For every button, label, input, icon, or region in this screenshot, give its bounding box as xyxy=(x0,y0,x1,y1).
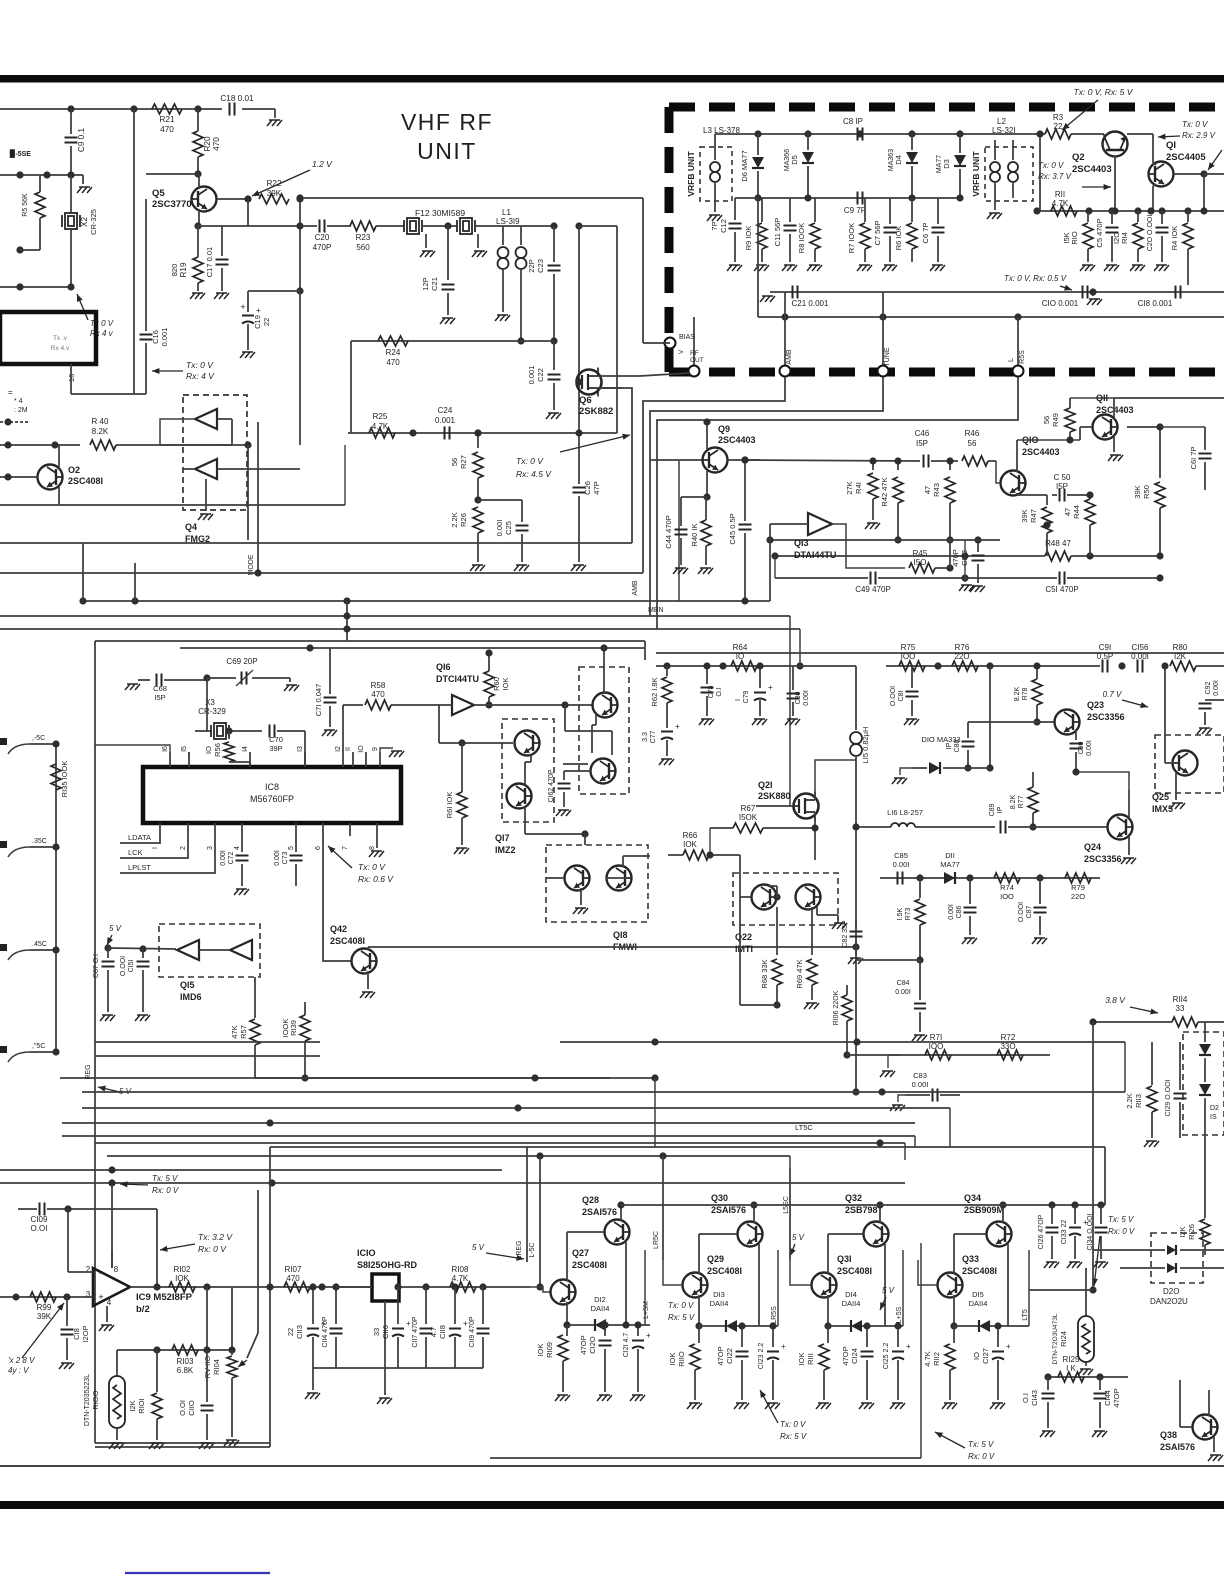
resistor R22 xyxy=(259,194,289,204)
svg-text:2SC408I: 2SC408I xyxy=(707,1266,742,1276)
capacitor C72 0.001 xyxy=(241,836,243,852)
diode Dxa xyxy=(1204,1022,1206,1042)
capacitor C117 470P xyxy=(425,1287,427,1324)
svg-text:Q24: Q24 xyxy=(1084,842,1101,852)
svg-text:C44 470P: C44 470P xyxy=(664,515,673,548)
svg-text:DAII4: DAII4 xyxy=(591,1304,610,1313)
vertical x248 mid xyxy=(247,445,249,540)
svg-text:C67 O.I: C67 O.I xyxy=(93,954,100,978)
svg-text:RI25: RI25 xyxy=(1063,1355,1080,1364)
vertical x56 left rail xyxy=(55,744,57,1052)
capacitor C21 xyxy=(447,226,449,280)
vertical x351 xyxy=(350,341,352,433)
R64 row wire y666 xyxy=(656,665,845,667)
ground C113 left xyxy=(312,1368,314,1390)
wire y317 row xyxy=(758,316,1224,318)
vertical x1093 upper xyxy=(1092,1022,1094,1092)
dashed box Q22 1MT1 xyxy=(733,873,838,925)
ground R41 xyxy=(867,522,878,524)
wire y211 row right xyxy=(1037,210,1224,212)
diode D4 MA363 xyxy=(911,134,913,150)
transistor Q18b xyxy=(607,866,632,891)
svg-text:CI44: CI44 xyxy=(1103,1390,1112,1406)
ground C6 xyxy=(932,264,943,266)
svg-text:C79: C79 xyxy=(743,690,750,703)
svg-text:C22: C22 xyxy=(536,368,545,382)
svg-text:R99: R99 xyxy=(37,1303,52,1312)
capacitor C11 56P xyxy=(789,198,791,222)
ground L3 xyxy=(709,214,720,216)
ground C25 xyxy=(516,564,527,566)
Q29 base wire xyxy=(663,1260,682,1285)
capacitor C121 4.7 xyxy=(637,1325,639,1336)
svg-text:DTAI44TU: DTAI44TU xyxy=(794,550,836,560)
svg-text:C68: C68 xyxy=(153,684,167,693)
resistor R113 2.2K xyxy=(1151,1078,1153,1085)
resistor R27 56 xyxy=(477,433,479,448)
svg-text:2SB909M: 2SB909M xyxy=(964,1205,1004,1215)
IC8 bottom pin stubs xyxy=(159,823,161,836)
svg-text:D2O: D2O xyxy=(1163,1287,1179,1296)
blue underline mark xyxy=(125,1572,270,1574)
svg-text:C8 IP: C8 IP xyxy=(843,117,863,126)
top border bar xyxy=(0,75,1224,83)
svg-text:39K: 39K xyxy=(267,189,282,198)
wire y960 stub xyxy=(856,959,920,961)
cap ground rail xyxy=(313,1367,483,1369)
ground R14 xyxy=(1132,264,1143,266)
svg-text:Q5: Q5 xyxy=(152,188,165,199)
svg-text:C19: C19 xyxy=(253,315,262,329)
vertical x135 xyxy=(134,563,136,601)
svg-text:5 V: 5 V xyxy=(109,924,122,933)
svg-text:Rx 4.v: Rx 4.v xyxy=(51,345,70,352)
svg-text:C11 56P: C11 56P xyxy=(773,218,782,247)
dashed box Q15 IMD6 xyxy=(159,924,260,977)
svg-text:C69 20P: C69 20P xyxy=(226,657,257,666)
svg-text:R40 IK: R40 IK xyxy=(690,524,699,547)
capacitor C81 0.001 xyxy=(911,666,913,688)
svg-text:2SB798: 2SB798 xyxy=(845,1205,878,1215)
svg-text:R6 IOK: R6 IOK xyxy=(894,226,903,251)
transistor Q24 2SC3356 xyxy=(1108,815,1133,840)
svg-text:TUNE: TUNE xyxy=(884,347,891,366)
section enclosure top edge xyxy=(95,640,645,642)
svg-text:0.00I: 0.00I xyxy=(1131,652,1149,661)
wire y422 left stub xyxy=(0,421,30,423)
svg-text:+: + xyxy=(781,1342,786,1351)
svg-text:RIII: RIII xyxy=(806,1353,815,1365)
capacitor C67 0.1 xyxy=(107,948,109,958)
transistor Q11 xyxy=(1093,415,1118,440)
svg-text:+: + xyxy=(906,1342,911,1351)
svg-text:IOO: IOO xyxy=(1000,892,1014,901)
svg-text:C 50: C 50 xyxy=(1054,473,1071,482)
ground C17 xyxy=(216,292,227,294)
AMB label wire right xyxy=(0,504,59,506)
svg-text:F12 30MI589: F12 30MI589 xyxy=(415,208,465,218)
svg-text:33O: 33O xyxy=(1000,1042,1015,1051)
vertical LREG xyxy=(526,1147,528,1262)
svg-text:'x 2 8 V: 'x 2 8 V xyxy=(8,1356,35,1365)
svg-text:3.3: 3.3 xyxy=(642,732,649,742)
svg-text:Q2I: Q2I xyxy=(758,780,773,790)
svg-text:Rx: 5 V: Rx: 5 V xyxy=(780,1432,807,1441)
svg-text:VHF RF: VHF RF xyxy=(401,109,493,135)
svg-text:2: 2 xyxy=(180,846,187,850)
svg-text:470: 470 xyxy=(371,690,385,699)
svg-text:R21: R21 xyxy=(159,115,174,124)
svg-text:.35C: .35C xyxy=(32,838,47,845)
svg-text:MA77: MA77 xyxy=(936,155,943,173)
svg-text:12P: 12P xyxy=(421,277,430,290)
capacitor C50 15P xyxy=(1059,489,1061,502)
ground C44 xyxy=(675,567,686,569)
Q29-Q30 wiring xyxy=(698,1234,700,1274)
bus y1092 xyxy=(82,1091,1125,1093)
ground R7 xyxy=(859,264,870,266)
svg-text:RF: RF xyxy=(690,350,699,357)
svg-text:MA77: MA77 xyxy=(940,860,960,869)
svg-text:R49: R49 xyxy=(1051,413,1060,427)
svg-text:56: 56 xyxy=(450,458,459,466)
svg-text:MA363: MA363 xyxy=(888,149,895,171)
svg-text:IOK: IOK xyxy=(668,1353,677,1366)
svg-text:R64: R64 xyxy=(733,643,748,652)
vertical x1040 xyxy=(1039,134,1041,211)
svg-text:R68 33K: R68 33K xyxy=(760,959,769,988)
wire RF OUT to Q6 drain xyxy=(640,373,689,376)
svg-text:C6 7P: C6 7P xyxy=(921,223,930,244)
svg-text:0.00I: 0.00I xyxy=(495,520,504,537)
bus y1078 xyxy=(60,1077,655,1079)
Q16 input wire xyxy=(430,704,452,706)
resistor R108 4.7K xyxy=(450,1282,476,1292)
svg-text:C26: C26 xyxy=(583,481,592,495)
resistor R78 8.2K xyxy=(1032,679,1042,705)
svg-text:RI4: RI4 xyxy=(1120,232,1129,244)
net LDATA xyxy=(120,836,160,843)
terminal TUNE xyxy=(878,366,889,377)
svg-text:IOOK: IOOK xyxy=(281,1019,290,1038)
capacitor C9 7P xyxy=(857,192,859,205)
svg-text:0.001: 0.001 xyxy=(160,328,169,347)
wire Q2 to Q1 corner xyxy=(1127,133,1153,135)
transistor Q33 xyxy=(938,1273,963,1298)
transistor Q38 xyxy=(1193,1415,1218,1440)
svg-text:I6: I6 xyxy=(162,746,169,752)
svg-text:R47: R47 xyxy=(1029,509,1038,523)
svg-text:O.OOI: O.OOI xyxy=(120,956,127,976)
svg-text:RIOI: RIOI xyxy=(137,1398,146,1413)
svg-text:X2: X2 xyxy=(80,217,89,227)
wire pin13 to crystal row xyxy=(304,731,306,767)
svg-text:39P: 39P xyxy=(269,744,282,753)
svg-text:Tx: 0 V, Rx: 0.5 V: Tx: 0 V, Rx: 0.5 V xyxy=(1004,274,1067,283)
svg-text:C45 0.5P: C45 0.5P xyxy=(728,513,737,544)
svg-text:C83: C83 xyxy=(913,1071,927,1080)
svg-text:2SAI576: 2SAI576 xyxy=(711,1205,746,1215)
svg-text:IMZ2: IMZ2 xyxy=(495,845,516,855)
svg-text:I5: I5 xyxy=(181,746,188,752)
svg-text:47OP: 47OP xyxy=(579,1335,588,1354)
resistor R126 12K xyxy=(1204,1210,1206,1218)
svg-text:I K: I K xyxy=(1066,1364,1076,1373)
wire L2 to R3 xyxy=(995,133,1045,135)
capacitor C118 4.7 xyxy=(454,1287,456,1324)
svg-text:Tx: 0 V: Tx: 0 V xyxy=(186,360,214,370)
svg-text:0.001: 0.001 xyxy=(435,416,456,425)
transistor Q19b xyxy=(591,759,616,784)
capacitor C18 0.001 vco xyxy=(1175,286,1177,299)
ground C20b xyxy=(1156,264,1167,266)
ground Q22b xyxy=(816,907,818,915)
svg-text:Rx: 4 V: Rx: 4 V xyxy=(186,371,215,381)
terminal RF OUT xyxy=(689,366,700,377)
resistor R4 10K xyxy=(1187,211,1189,222)
wire y878 row xyxy=(880,877,1100,879)
resistor R72 330 xyxy=(997,1050,1023,1060)
svg-text:470: 470 xyxy=(160,125,174,134)
svg-text:QI7: QI7 xyxy=(495,833,510,843)
wire from y226 corner to BIAS xyxy=(579,225,617,227)
vertical from C21 row xyxy=(784,292,786,317)
svg-text:Q3I: Q3I xyxy=(837,1254,852,1264)
svg-text:RI39: RI39 xyxy=(289,1020,298,1036)
svg-text:RII: RII xyxy=(1055,190,1065,199)
svg-text:Tx: 3.2 V: Tx: 3.2 V xyxy=(198,1232,233,1242)
resistor R110 10K xyxy=(698,1326,700,1343)
capacitor C109 0.01 xyxy=(18,1208,37,1210)
svg-text:0.00I: 0.00I xyxy=(893,860,910,869)
svg-text:DTCI44TU: DTCI44TU xyxy=(436,674,479,684)
svg-text:IOK: IOK xyxy=(501,678,510,691)
svg-text:CI33 22: CI33 22 xyxy=(1061,1220,1068,1245)
svg-text:Rx 4 v: Rx 4 v xyxy=(90,329,114,338)
capacitor C88 1P xyxy=(967,722,969,738)
svg-text:4.7K: 4.7K xyxy=(452,1274,469,1283)
svg-text:Q30: Q30 xyxy=(711,1193,728,1203)
svg-text:R46: R46 xyxy=(965,429,980,438)
svg-text:* 4: * 4 xyxy=(14,398,23,405)
svg-text:QII: QII xyxy=(1096,393,1108,403)
resistor R125 1K xyxy=(1058,1372,1084,1382)
ground C49C51 xyxy=(964,578,966,582)
capacitor C89 1P xyxy=(1000,821,1002,834)
svg-text:O.I: O.I xyxy=(1021,1393,1030,1403)
pin8 wire xyxy=(111,1250,113,1268)
svg-text:C77: C77 xyxy=(650,730,657,743)
svg-text:b/2: b/2 xyxy=(136,1304,150,1315)
capacitor C82 33P xyxy=(855,920,857,928)
dashed box Q17 xyxy=(502,719,554,822)
svg-text:22: 22 xyxy=(1054,122,1063,131)
svg-text:CI23 2.2: CI23 2.2 xyxy=(758,1343,765,1370)
svg-text:C89: C89 xyxy=(989,803,996,816)
transistor Q25 xyxy=(1173,751,1198,776)
vertical x645 section right xyxy=(644,641,646,660)
svg-text:+: + xyxy=(406,1319,411,1328)
svg-text:47P: 47P xyxy=(592,481,601,494)
svg-text:R7 IOOK: R7 IOOK xyxy=(847,223,856,253)
diode D20a xyxy=(1167,1245,1176,1255)
pin8 ground xyxy=(376,836,378,848)
svg-text:C6I 7P: C6I 7P xyxy=(1189,447,1198,470)
svg-text:33: 33 xyxy=(1176,1004,1185,1013)
svg-text:IP: IP xyxy=(997,806,1004,813)
svg-text:7: 7 xyxy=(342,846,349,850)
ground L1a xyxy=(497,314,508,316)
wire L R5S net xyxy=(657,377,1018,629)
svg-text:DAN2O2U: DAN2O2U xyxy=(1150,1297,1188,1306)
capacitor C134 0.001 xyxy=(1100,1205,1102,1224)
svg-text:DII: DII xyxy=(945,851,955,860)
svg-text:C9 7P: C9 7P xyxy=(844,206,866,215)
svg-text:I2K: I2K xyxy=(1174,652,1187,661)
svg-text:Q2: Q2 xyxy=(1072,152,1085,163)
capacitor C9 xyxy=(70,109,72,134)
svg-text:2SC3770: 2SC3770 xyxy=(152,199,192,210)
svg-text:Q28: Q28 xyxy=(582,1195,599,1205)
svg-text:Tx: 0 V, Rx: 5 V: Tx: 0 V, Rx: 5 V xyxy=(1074,87,1134,97)
svg-text:4: 4 xyxy=(234,846,241,850)
wire right bus y653 xyxy=(656,652,1224,654)
svg-text:RI06 22OK: RI06 22OK xyxy=(833,990,840,1025)
svg-text:R72: R72 xyxy=(1001,1033,1016,1042)
svg-text:Q4: Q4 xyxy=(185,522,197,532)
svg-text:Tx: 0 V: Tx: 0 V xyxy=(1038,161,1064,170)
svg-text:I2K: I2K xyxy=(128,1400,137,1411)
note arrow right edge xyxy=(1208,150,1222,170)
row y1205 rail xyxy=(621,1204,1105,1206)
svg-text:CR-329: CR-329 xyxy=(198,707,226,716)
capacitor C110 0.01 xyxy=(206,1350,208,1402)
triangle Q13 DTA144TU xyxy=(808,513,832,535)
svg-text:22: 22 xyxy=(262,318,271,326)
svg-text:I5K: I5K xyxy=(1062,232,1071,243)
capacitor C10 0.001 xyxy=(1082,286,1084,299)
ground Q18 xyxy=(580,888,582,905)
section enclosure bottom-left xyxy=(95,1442,270,1444)
ground stub near X2 xyxy=(82,175,84,184)
svg-text:RI07: RI07 xyxy=(285,1265,302,1274)
svg-text:▉-5SE: ▉-5SE xyxy=(9,149,31,158)
svg-text:1.2 V: 1.2 V xyxy=(312,159,333,169)
R71 R72 row xyxy=(900,1054,1050,1056)
wire from IC box down xyxy=(70,364,72,394)
capacitor C17 xyxy=(198,225,222,227)
Q10 wiring xyxy=(996,461,1000,483)
svg-text:Q6: Q6 xyxy=(579,395,592,406)
svg-text:REG: REG xyxy=(85,1064,92,1079)
svg-text:CR-325: CR-325 xyxy=(89,209,98,235)
svg-text:RII2: RII2 xyxy=(932,1352,941,1366)
R125 row xyxy=(1048,1376,1128,1378)
svg-text:II: II xyxy=(345,747,352,751)
svg-text:Rx: 3.7 V: Rx: 3.7 V xyxy=(1038,172,1072,181)
svg-text:4.7: 4.7 xyxy=(429,1327,438,1337)
capacitor C16 xyxy=(145,343,147,394)
resistor R64 10 xyxy=(731,661,757,671)
svg-text:ICIO: ICIO xyxy=(357,1248,376,1258)
svg-text:C8I: C8I xyxy=(898,691,905,702)
svg-text:S8I25OHG-RD: S8I25OHG-RD xyxy=(357,1260,418,1270)
capacitor C125 2.2 xyxy=(897,1326,899,1347)
capacitor C129 0.001 xyxy=(1179,1078,1181,1090)
svg-text:IMD6: IMD6 xyxy=(180,992,202,1002)
svg-text:D2: D2 xyxy=(1210,1105,1219,1112)
svg-text:0.7 V: 0.7 V xyxy=(1103,690,1122,699)
pin9 ground xyxy=(380,748,393,752)
svg-text:C7I 0.047: C7I 0.047 xyxy=(314,684,323,717)
svg-text:,-5C: ,-5C xyxy=(32,735,45,742)
svg-text:Tx: 5 V: Tx: 5 V xyxy=(152,1174,178,1183)
svg-text:IOK: IOK xyxy=(536,1344,545,1357)
Q42 collector wire right xyxy=(367,947,369,950)
svg-text:D5: D5 xyxy=(790,155,799,165)
svg-text:+: + xyxy=(1006,1342,1011,1351)
bus y1183 xyxy=(0,1182,905,1184)
potentiometer R104 RV-110 xyxy=(231,1287,233,1350)
wire Q16 out xyxy=(474,704,593,706)
dashed box Q18 FMW1 xyxy=(546,845,648,922)
svg-text:27K: 27K xyxy=(845,481,854,494)
resistor R20 xyxy=(193,131,203,157)
svg-text:IO: IO xyxy=(736,652,744,661)
svg-text:R43: R43 xyxy=(932,483,941,497)
vertical x990 to mixer xyxy=(989,666,991,768)
audio enclosure left x270 xyxy=(269,1147,271,1447)
capacitor C44 470P xyxy=(680,497,682,526)
svg-text:RI26: RI26 xyxy=(1187,1224,1196,1240)
resistor R101 12K xyxy=(156,1350,158,1392)
diode D6 MA77 xyxy=(757,134,759,155)
svg-text:CII8: CII8 xyxy=(438,1325,447,1339)
ground C7 xyxy=(884,264,895,266)
transistor Q22b xyxy=(796,885,821,910)
capacitor C124 470P xyxy=(866,1326,868,1347)
capacitor C120 470P xyxy=(604,1325,606,1336)
wire Q4 input from x300 xyxy=(232,468,300,470)
svg-text:Tx: 0 V: Tx: 0 V xyxy=(358,862,386,872)
junction dots y175 xyxy=(16,171,23,178)
wire Q13 down to R45 xyxy=(832,524,905,568)
resistor R135 100K xyxy=(51,764,61,790)
svg-text:I: I xyxy=(735,699,742,701)
dashed box Q4 FMG2 xyxy=(183,395,247,510)
svg-text:R50: R50 xyxy=(1142,485,1151,499)
op-amp IC9 xyxy=(93,1268,130,1306)
Q4 wiring xyxy=(217,418,232,420)
svg-text:470: 470 xyxy=(212,137,221,151)
svg-text:CII6: CII6 xyxy=(381,1325,390,1339)
ground R71 left xyxy=(888,1055,900,1068)
Q31 base wire xyxy=(790,1260,811,1285)
net LPLST xyxy=(120,836,215,873)
IC8 top pin stubs xyxy=(169,752,171,767)
svg-text:I2: I2 xyxy=(335,746,342,752)
svg-text:I4: I4 xyxy=(242,746,249,752)
svg-text:RI02: RI02 xyxy=(174,1265,191,1274)
wire emitter row to x300 xyxy=(222,225,300,227)
capacitor C86 0.001 xyxy=(969,878,971,904)
bus y1170 xyxy=(0,1169,502,1171)
transistor Q2 left xyxy=(38,465,63,490)
dashed box Q19 xyxy=(579,667,629,794)
svg-text:QI8: QI8 xyxy=(613,930,628,940)
svg-text:IO: IO xyxy=(358,745,365,753)
svg-text:VRFB UNIT: VRFB UNIT xyxy=(686,151,696,197)
